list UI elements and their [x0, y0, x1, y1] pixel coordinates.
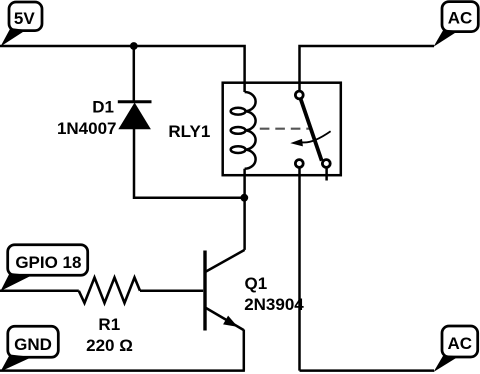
svg-text:5V: 5V: [14, 9, 35, 28]
svg-text:GND: GND: [14, 335, 52, 354]
svg-text:R1: R1: [98, 315, 120, 334]
svg-text:GPIO 18: GPIO 18: [15, 253, 81, 272]
svg-text:1N4007: 1N4007: [57, 119, 117, 138]
svg-text:RLY1: RLY1: [168, 122, 210, 141]
svg-text:Q1: Q1: [245, 274, 268, 293]
svg-text:220 Ω: 220 Ω: [86, 336, 133, 355]
svg-text:AC: AC: [448, 334, 473, 353]
svg-text:AC: AC: [448, 9, 473, 28]
svg-text:2N3904: 2N3904: [244, 295, 304, 314]
svg-text:D1: D1: [92, 98, 114, 117]
